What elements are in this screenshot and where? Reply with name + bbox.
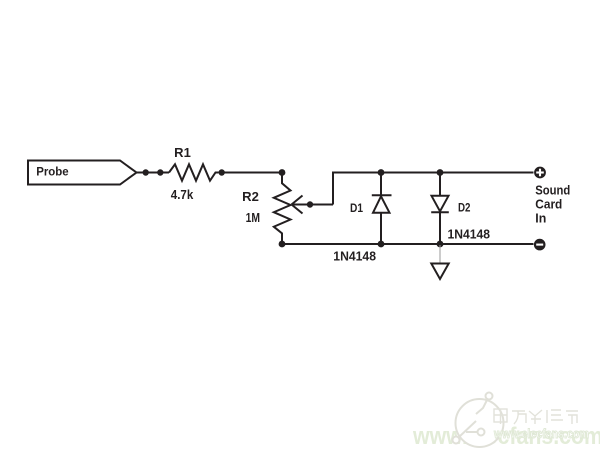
watermark logo circle bbox=[453, 393, 504, 448]
potentiometer R2 vertical zigzag bbox=[274, 173, 291, 245]
svg-text:1N4148: 1N4148 bbox=[333, 249, 376, 264]
wire wiper up to top rail bbox=[333, 173, 534, 205]
svg-text:D2: D2 bbox=[458, 200, 471, 214]
node dot D2 top bbox=[437, 169, 444, 176]
ground triangle bbox=[431, 264, 448, 280]
svg-text:Sound: Sound bbox=[535, 182, 570, 197]
node dot D1 bottom bbox=[378, 241, 385, 248]
svg-text:R1: R1 bbox=[174, 146, 191, 160]
watermark chinese glyphs (approx) bbox=[494, 409, 578, 424]
diode D2 (pointing down) bbox=[431, 173, 449, 245]
ground stem bbox=[439, 245, 441, 263]
svg-text:In: In bbox=[535, 211, 546, 226]
node dot R2 bottom bbox=[279, 241, 286, 248]
node dot D2 bottom / ground junction bbox=[437, 241, 444, 248]
node dot D1 top bbox=[378, 169, 385, 176]
probe connector bbox=[28, 161, 137, 185]
node dot on wiper bbox=[307, 201, 313, 207]
diode D1 (pointing up) bbox=[372, 173, 392, 245]
node dot after R1 bbox=[219, 169, 225, 175]
svg-text:4.7k: 4.7k bbox=[171, 188, 194, 202]
svg-text:1M: 1M bbox=[246, 211, 260, 225]
node dot R2 top bbox=[279, 169, 286, 176]
wire R1 to R2 top bbox=[222, 172, 282, 174]
svg-text:www.elecfans.com: www.elecfans.com bbox=[493, 427, 589, 441]
bottom rail bbox=[282, 243, 534, 245]
svg-text:1N4148: 1N4148 bbox=[448, 226, 491, 241]
node dot bbox=[143, 169, 149, 175]
wire probe to R1 bbox=[137, 172, 170, 174]
svg-text:Card: Card bbox=[535, 197, 562, 212]
minus terminal bbox=[534, 239, 546, 251]
svg-text:Probe: Probe bbox=[36, 165, 69, 179]
plus terminal bbox=[534, 167, 546, 179]
wiper arrow of R2 bbox=[292, 196, 334, 214]
svg-text:R2: R2 bbox=[242, 190, 259, 204]
node dot bbox=[157, 169, 163, 175]
svg-text:D1: D1 bbox=[350, 201, 363, 215]
resistor R1 zigzag bbox=[169, 164, 219, 180]
